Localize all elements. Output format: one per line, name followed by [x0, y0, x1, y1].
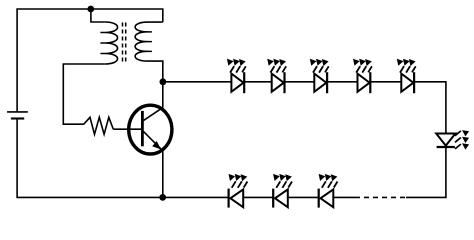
wire: secondary bottom lead down to collector	[148, 61, 163, 108]
inductor L2 secondary winding (right coil)	[135, 22, 163, 61]
wire: between LED1-LED2	[244, 81, 271, 83]
wire: LED5 to right corner, down to D6	[414, 82, 446, 134]
inductor L1 primary winding (left coil)	[105, 22, 118, 64]
wire: bottom rail segment LED9 to dashes	[333, 196, 359, 198]
node: junction dot collector / LED chain	[160, 78, 167, 85]
wire: between LED3-LED4	[327, 81, 357, 83]
LED D4	[353, 59, 372, 93]
LED D3	[310, 59, 329, 93]
transistor Q1 collector stroke	[143, 108, 162, 121]
transformer core (dashed lines)	[122, 23, 124, 65]
wire: between LED2-LED3	[285, 81, 315, 83]
wire: primary bottom lead, left drop to resistor	[63, 64, 105, 124]
resistor R1	[84, 117, 114, 134]
LED D1	[227, 59, 246, 93]
transistor Q1 base bar	[141, 111, 144, 146]
wire: D6 cathode down to bottom rail corner	[406, 147, 446, 197]
wire: top LED chain feed	[163, 81, 232, 83]
battery B1 negative plate	[11, 117, 24, 119]
wire: dashed continuation in bottom rail	[359, 196, 405, 198]
wire: between bottom LED8-LED9	[288, 196, 319, 198]
LED D7 (points left)	[229, 174, 248, 208]
transistor Q1 emitter stroke with arrow	[143, 131, 162, 197]
LED D8 (points left)	[273, 174, 292, 208]
wire: base lead into transistor	[113, 128, 142, 130]
battery B1 positive plate	[7, 111, 28, 113]
wire: battery + up left side, top rail to transformer right lead	[17, 9, 163, 112]
LED D5	[397, 59, 416, 93]
wire: battery - down, bottom rail to first bottom LED	[17, 119, 229, 198]
wire: between LED4-LED5	[370, 81, 401, 83]
LED D6 (points down)	[436, 134, 455, 146]
wire: junction down to primary winding top lead	[91, 9, 105, 22]
wire: between bottom LED7-LED8	[243, 196, 273, 198]
transistor Q1 body circle	[129, 105, 172, 154]
LED D9 (points left)	[319, 174, 338, 208]
node: junction dot battery rail / primary winding	[87, 6, 94, 13]
node: junction dot emitter / bottom rail	[159, 194, 166, 201]
LED D2	[267, 59, 286, 93]
